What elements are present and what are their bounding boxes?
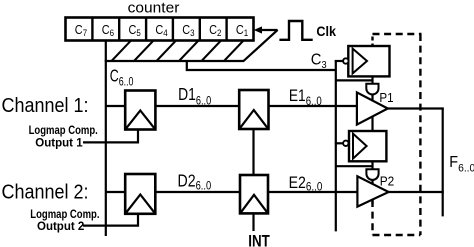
svg-text:C3: C3 [311, 52, 327, 71]
dashed enclosure left edge upper piece [371, 37, 373, 47]
svg-text:counter: counter [128, 0, 180, 17]
counter register row outline [66, 18, 254, 41]
svg-text:P2: P2 [380, 173, 395, 188]
wire step from bus to C3 line [187, 61, 336, 70]
svg-text:D16..0: D16..0 [178, 84, 211, 107]
wire logmap output1 to REG1 clock [83, 130, 138, 143]
dashed enclosure left edge lower piece [371, 200, 373, 235]
wire C3 to bubble of driver U1 [335, 60, 343, 62]
wire C bus to register REG1 [106, 105, 125, 107]
register REG3 channel2 stage1 [125, 174, 155, 214]
wire E2 bus REG4 to buffer P2 [268, 191, 357, 193]
dashed enclosure top edge [373, 33, 422, 35]
dashed enclosure right edge [419, 34, 421, 235]
counter cell divider C6/C5 [118, 18, 120, 41]
wire P2 output to F bus [389, 191, 444, 193]
driver cell U2 inverting-enable box [349, 131, 386, 161]
wire C3 branch to gate G2 [336, 165, 373, 167]
wire main C bus vertical [105, 41, 107, 237]
svg-text:F6..0: F6..0 [449, 154, 474, 175]
svg-text:Output 2: Output 2 [37, 219, 84, 233]
wire D2 bus REG3 to REG4 [155, 191, 240, 193]
wire E1 bus REG2 to buffer P1 [269, 105, 357, 107]
wire C3 branch to gate G1 [336, 79, 373, 81]
register REG1 channel1 stage1 [125, 91, 155, 130]
svg-text:D26..0: D26..0 [178, 170, 212, 192]
dashed enclosure bottom edge [373, 234, 421, 236]
svg-text:E16..0: E16..0 [289, 87, 322, 108]
svg-text:P1: P1 [379, 90, 393, 105]
wire REG4 clock to INT [252, 213, 254, 231]
wire D1 bus REG1 to REG2 [155, 105, 239, 107]
bus tap slash 5 [202, 41, 222, 62]
bus tap slash 3 [157, 41, 177, 62]
wire U1 output to gate G1 [371, 76, 373, 84]
register REG4 channel2 stage2 [240, 175, 268, 213]
driver cell U1 inverting-enable box [348, 46, 389, 76]
bus tap slash 1 [112, 41, 132, 62]
clk pulse waveform symbol [279, 21, 312, 40]
tri-state buffer P2 [357, 176, 388, 206]
bubble on U2 input [343, 141, 348, 146]
bus tap slash 4 [179, 41, 199, 62]
svg-text:C6..0: C6..0 [110, 65, 134, 88]
svg-text:Output 1: Output 1 [35, 135, 82, 149]
wire U2 output to gate G2 [371, 161, 373, 170]
bus tap slash 2 [134, 41, 154, 62]
svg-text:Channel 2:: Channel 2: [2, 182, 89, 204]
wire C3 to bubble of driver U2 [335, 142, 343, 144]
svg-text:INT: INT [248, 232, 270, 247]
wire P1 to U2 clock [371, 117, 373, 132]
wire C3 vertical distribution [335, 60, 337, 231]
counter cell divider C3/C2 [199, 18, 201, 41]
wire logmap output2 to REG3 clock [83, 214, 138, 226]
wire clk arrow line [261, 29, 278, 31]
svg-text:E26..0: E26..0 [289, 174, 323, 194]
wire C bus to register REG3 [106, 191, 125, 193]
svg-text:Channel 1:: Channel 1: [2, 95, 89, 117]
counter cell divider C4/C3 [172, 18, 174, 41]
register REG2 channel1 stage2 [239, 90, 268, 129]
svg-text:Clk: Clk [316, 23, 336, 39]
wire G2 output to P2 enable [371, 180, 373, 185]
wire G1 output to P1 enable [371, 95, 373, 102]
wire diagonal from bus to clk arrow [243, 30, 278, 62]
gate G1 and-down [366, 84, 378, 95]
clk input arrowhead into counter [254, 26, 262, 33]
wire F bus vertical [442, 109, 444, 217]
counter cell divider C7/C6 [91, 18, 93, 41]
wire bus horizontal under counter [105, 60, 244, 62]
counter cell divider C2/C1 [225, 18, 227, 41]
bubble on U1 input [343, 58, 348, 63]
wire REG2 clock chain to REG4 [252, 129, 254, 175]
gate G2 and-down [366, 169, 378, 180]
bus tap slash 6 [224, 41, 244, 62]
wire P2 lower stem [371, 200, 373, 205]
tri-state buffer P1 [357, 92, 388, 124]
wire P1 output to F bus [388, 107, 444, 109]
counter cell divider C5/C4 [145, 18, 147, 41]
